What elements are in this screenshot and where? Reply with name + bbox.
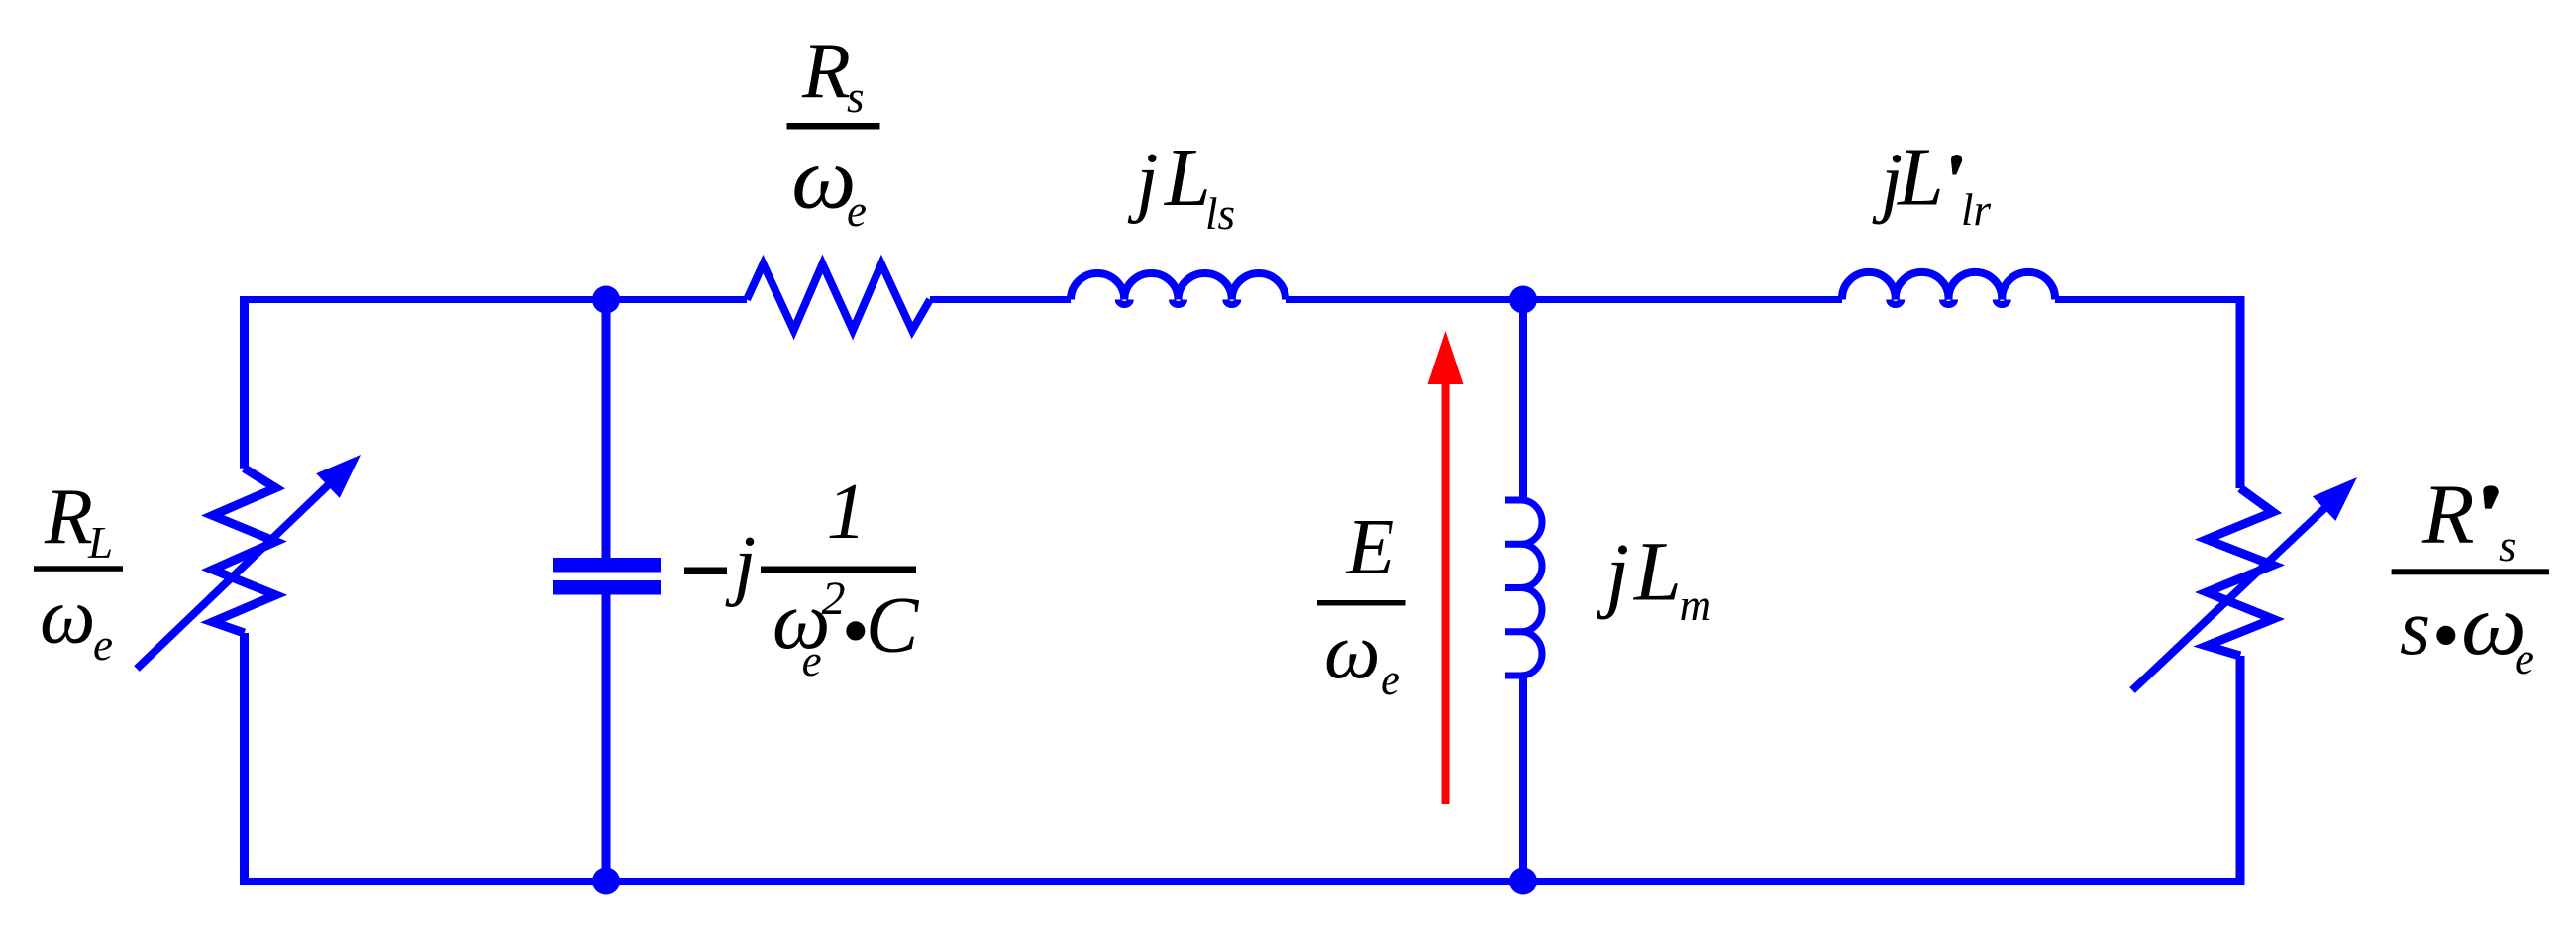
resistor R's variable zigzag (right branch) (2207, 488, 2273, 656)
wire: magnetizing branch upper segment (1519, 300, 1527, 501)
svg-text:•: • (841, 588, 869, 676)
inductor jL'lr coil (4 humps) (1842, 272, 2055, 300)
label R's numerator prime (2483, 485, 2499, 508)
label -j 1/(we2 C): minus sign (684, 568, 727, 575)
inductor jL'lr junction nubs (1890, 300, 2009, 305)
svg-text:ω: ω (40, 573, 95, 661)
svg-text:j: j (1127, 138, 1158, 225)
wire: top rail segment between Rs and jLls (930, 296, 1071, 303)
fraction bar of E/we (1317, 600, 1406, 606)
svg-text:e: e (2515, 634, 2534, 683)
svg-text:•: • (2431, 592, 2459, 679)
svg-text:j: j (725, 521, 756, 608)
capacitor C bottom plate (553, 580, 661, 595)
svg-text:R: R (44, 473, 93, 561)
arrow through left variable resistor (head) (316, 455, 361, 498)
svg-text:e: e (802, 636, 822, 685)
svg-text:e: e (847, 186, 867, 236)
fraction bar of R_s/we (787, 123, 880, 130)
wire: top rail segment from jL'lr to right corner (2055, 296, 2244, 303)
arrow through left variable resistor (shaft) (137, 477, 337, 670)
svg-text:s: s (2499, 521, 2517, 571)
svg-text:e: e (93, 620, 113, 670)
wire: left branch upper segment (240, 296, 249, 469)
fraction bar of R_L/we (34, 566, 123, 572)
svg-text:m: m (1680, 580, 1712, 630)
inductor jLls junction nubs (1118, 300, 1238, 305)
svg-text:lr: lr (1961, 185, 1992, 235)
svg-text:E: E (1345, 504, 1394, 591)
arrow through right variable resistor (shaft) (2132, 500, 2333, 690)
node: junction dot top of magnetizing branch (1509, 286, 1537, 314)
svg-text:1: 1 (827, 469, 867, 556)
svg-text:L: L (1632, 524, 1682, 619)
svg-text:j: j (1596, 525, 1629, 620)
svg-text:R: R (2421, 466, 2475, 561)
svg-text:L: L (87, 518, 113, 568)
inductor jLm coil (4 arcs bulging right with stubs) (1505, 500, 1542, 676)
resistor R_L variable zigzag (left branch) (213, 469, 276, 633)
capacitor C top plate (553, 558, 661, 573)
wire: right branch upper segment (2236, 296, 2245, 488)
resistor R_s/we zigzag on top rail (747, 264, 930, 331)
wire: magnetizing branch lower segment (1519, 676, 1527, 882)
svg-text:ls: ls (1205, 189, 1235, 239)
wire: bottom rail (241, 878, 2244, 885)
svg-text:R: R (801, 28, 851, 115)
fraction bar of 1/(we2 C) (761, 567, 916, 573)
arrow through right variable resistor (head) (2313, 477, 2357, 521)
node: junction dot bottom of capacitor branch (592, 868, 620, 895)
wire: capacitor branch upper segment (602, 300, 611, 559)
wire: top rail segment between jLls and jL'lr across node E (1286, 296, 1842, 303)
arrow: red E reference arrow shaft (1442, 382, 1450, 804)
arrow: red E reference arrow head (1428, 331, 1464, 384)
inductor jLls coil (4 humps) (1071, 273, 1286, 300)
label jL'lr: prime (1951, 155, 1962, 175)
wire: capacitor branch lower segment (602, 594, 611, 882)
svg-text:L: L (1164, 132, 1211, 224)
wire: right branch lower segment (2236, 656, 2245, 885)
svg-text:C: C (866, 582, 920, 670)
svg-text:ω: ω (1324, 608, 1380, 695)
svg-text:s: s (847, 72, 865, 122)
fraction bar of R's/(s we) (2392, 569, 2549, 574)
svg-text:L: L (1897, 132, 1944, 224)
node: junction dot bottom of magnetizing branch (1509, 868, 1537, 895)
svg-text:s: s (2400, 584, 2430, 672)
wire: left branch lower segment (240, 633, 249, 885)
node: junction dot top of capacitor branch (592, 286, 620, 314)
wire: top rail segment from left corner to resistor Rs (241, 296, 747, 303)
svg-text:e: e (1381, 655, 1400, 704)
